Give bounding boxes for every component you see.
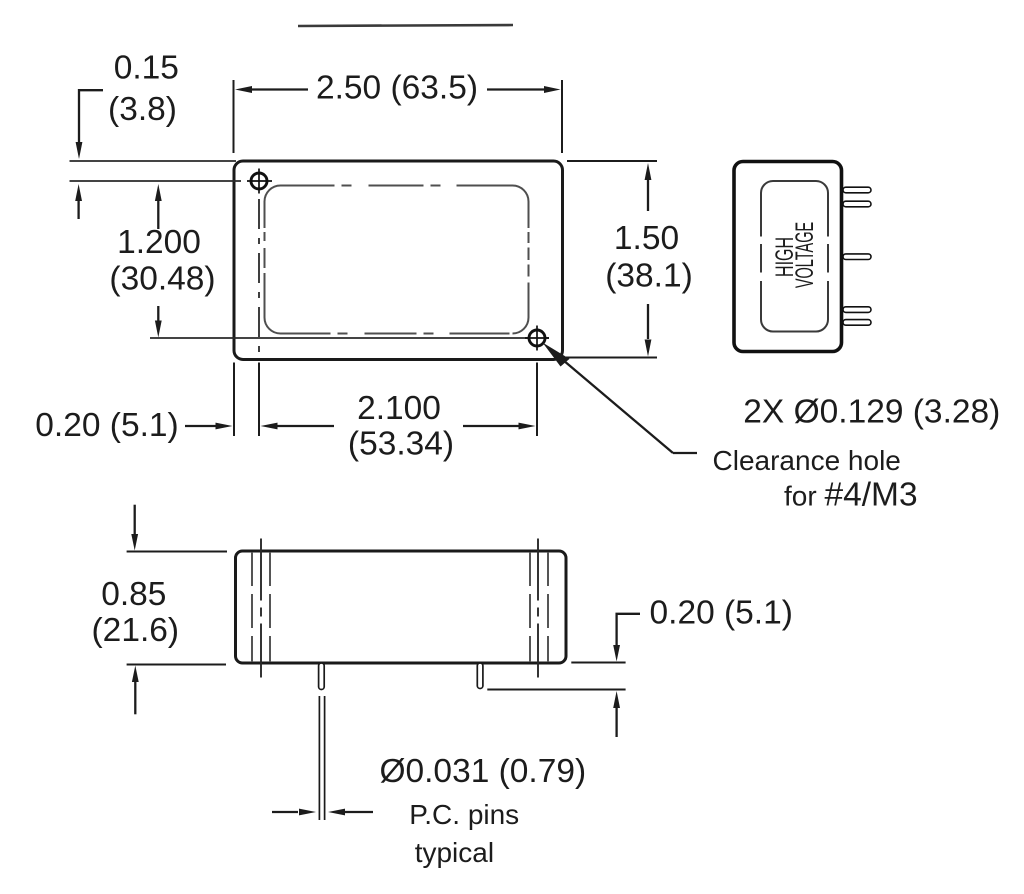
dimension 0.20 (5.1) below top view	[35, 363, 259, 445]
leader to clearance hole	[543, 343, 698, 454]
hole centerline left	[260, 539, 262, 678]
dimension 0.85 (21.6)	[92, 505, 227, 715]
pin 1 (side)	[843, 187, 871, 193]
mounting hole 2	[525, 326, 549, 351]
svg-text:1.200: 1.200	[117, 224, 201, 261]
svg-text:Clearance hole: Clearance hole	[713, 445, 901, 476]
centerline through hole 1 (vertical, dashed inside body)	[258, 199, 260, 359]
top edge extension to the left	[70, 160, 237, 162]
module body (side view)	[734, 162, 842, 352]
pin 5 (side)	[843, 320, 871, 326]
dimension 1.50 (38.1)	[566, 161, 693, 358]
pin 1 extension (broken length)	[318, 696, 320, 820]
svg-text:2X Ø0.129 (3.28): 2X Ø0.129 (3.28)	[743, 394, 1000, 431]
svg-text:(3.8): (3.8)	[108, 91, 177, 128]
svg-text:(53.34): (53.34)	[348, 426, 454, 463]
svg-text:0.15: 0.15	[114, 50, 179, 87]
svg-text:1.50: 1.50	[614, 220, 679, 257]
hidden hole lines right	[529, 552, 531, 662]
svg-text:Ø0.031 (0.79): Ø0.031 (0.79)	[379, 753, 586, 790]
svg-text:0.20 (5.1): 0.20 (5.1)	[650, 595, 793, 632]
pin 2 (side)	[843, 201, 871, 207]
dimension pin diameter arrows	[272, 809, 373, 816]
svg-text:(21.6): (21.6)	[92, 612, 180, 649]
module body outline (top view)	[234, 161, 563, 360]
hole-1 centerline extension (line A)	[70, 180, 242, 182]
pin 2 stub (front)	[477, 663, 483, 689]
svg-text:typical: typical	[415, 837, 494, 868]
centerline through hole 2 (horizontal, line B)	[150, 337, 549, 339]
mounting hole 1	[247, 169, 272, 194]
svg-text:0.20 (5.1): 0.20 (5.1)	[35, 407, 178, 444]
dimension 0.20 (5.1) pin standoff	[487, 595, 793, 738]
hole centerline right	[537, 539, 539, 678]
dimension 0.15 (3.8)	[75, 50, 179, 220]
svg-text:(30.48): (30.48)	[109, 261, 215, 298]
svg-text:for #4/M3: for #4/M3	[784, 477, 918, 514]
svg-text:0.85: 0.85	[101, 576, 166, 613]
svg-text:2.50 (63.5): 2.50 (63.5)	[316, 70, 478, 107]
svg-text:2.100: 2.100	[357, 390, 441, 427]
pin 1 stub (front)	[319, 663, 325, 690]
dimension 2.50 (63.5)	[234, 70, 563, 154]
dimension 2.100 (53.34)	[261, 363, 538, 463]
pin 3 (side)	[843, 254, 871, 260]
top border line	[298, 25, 513, 26]
svg-text:(38.1): (38.1)	[605, 258, 693, 295]
hidden hole lines left	[251, 552, 253, 662]
module body (front view)	[236, 551, 567, 663]
pin 4 (side)	[843, 307, 871, 313]
warning label outline	[761, 181, 828, 332]
inner dashed case seam (top view)	[265, 186, 529, 334]
svg-text:P.C. pins: P.C. pins	[409, 799, 519, 830]
dimension 1.200 (30.48)	[109, 184, 215, 338]
label border gaps (dash effect)	[757, 237, 766, 245]
svg-text:VOLTAGE: VOLTAGE	[792, 222, 819, 288]
